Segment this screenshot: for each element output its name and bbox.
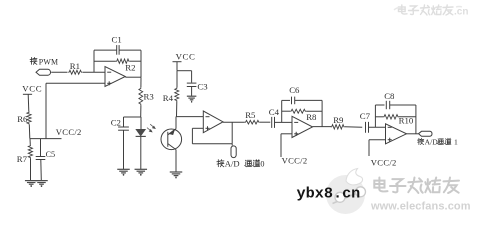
wire R9 to C7 (345, 126, 362, 128)
svg-text:C6: C6 (289, 85, 300, 95)
svg-text:VCC/2: VCC/2 (371, 157, 397, 167)
terminal A/D channel 0 (231, 146, 236, 158)
svg-text:C5: C5 (46, 150, 56, 159)
svg-text:R4: R4 (163, 93, 174, 103)
optocoupler phototransistor Q1 (161, 129, 182, 150)
wire C8 right (390, 104, 416, 106)
wire R6 to divider node (28, 125, 31, 139)
VCC left supply bar (23, 93, 32, 95)
wire C5 top lead (40, 139, 42, 157)
op-amp U2 (203, 111, 223, 133)
capacitor C7 (366, 122, 369, 133)
wire collector to node (175, 117, 177, 129)
label 接PWM (hanzi) (30, 57, 37, 64)
wire R5 to C4 (260, 121, 271, 123)
wire U3 non-inverting input (281, 133, 292, 135)
wire R2 left (94, 60, 116, 62)
resistor R6 (27, 112, 31, 125)
wire divider node to VCC/2 (30, 138, 62, 140)
resistor R10 (383, 115, 399, 119)
svg-text:C1: C1 (112, 35, 122, 45)
watermark ybx8 logo (326, 169, 366, 215)
wire R10 left (375, 116, 383, 118)
wire U3 feedback left up (281, 100, 283, 122)
svg-text:R5: R5 (245, 110, 256, 120)
svg-text:A/D: A/D (425, 137, 439, 146)
wire U3 output to R9 (313, 126, 332, 128)
wire C2 to ground (123, 130, 125, 169)
svg-text:R6: R6 (17, 114, 28, 124)
wire feedback down to U1 output (140, 50, 142, 77)
wire feedback bottom (192, 143, 232, 145)
wire node to op-amp U2 inverting input (177, 116, 204, 118)
capacitor C1 (117, 45, 119, 55)
wire R8 left (282, 110, 290, 112)
wire R2 right (130, 60, 141, 62)
wire C6 right (295, 99, 322, 101)
wire feedback left down (191, 128, 193, 144)
op-amp U1 (105, 67, 125, 87)
wire C6 left (282, 99, 290, 101)
resistor R1 (68, 70, 82, 74)
svg-text:R8: R8 (306, 112, 317, 122)
resistor R7 (28, 145, 32, 159)
svg-text:.cn: .cn (454, 7, 468, 18)
capacitor C2 (118, 127, 129, 130)
capacitor C6 (292, 97, 295, 105)
resistor R3 (139, 87, 143, 105)
wire C3 to ground (191, 87, 193, 97)
wire down to VCC/2 right (368, 140, 370, 156)
wire U2 non-inverting input (192, 127, 203, 129)
wire C1 left (94, 49, 117, 51)
wire down to VCC/2 (280, 134, 282, 157)
svg-text:ybx8.cn: ybx8.cn (297, 184, 361, 202)
wire U4 non-inverting input (369, 139, 386, 141)
ground under LED (135, 169, 148, 175)
capacitor C5 (36, 157, 46, 160)
svg-text:C3: C3 (197, 81, 208, 91)
wire node to C2 (124, 116, 141, 118)
wire output down to R3 (140, 77, 142, 87)
wire R1 to op-amp U1 inverting input (83, 71, 106, 73)
wire U4 feedback left up (374, 105, 376, 127)
wire branch to C3 (177, 70, 192, 72)
svg-text:R2: R2 (125, 62, 135, 72)
wire U1 output (125, 76, 141, 78)
wire R4 to collector node (176, 102, 178, 117)
wire R10 right (399, 116, 416, 118)
resistor R2 (116, 59, 130, 63)
svg-text:VCC: VCC (22, 83, 42, 93)
capacitor C3 (187, 83, 197, 86)
wire C5 to ground (40, 160, 43, 181)
wire to U1 non-inverting input (46, 82, 105, 84)
VCC middle supply bar (173, 61, 182, 63)
svg-text:0: 0 (260, 160, 264, 169)
wire R8 right (306, 110, 322, 112)
svg-text:R3: R3 (144, 91, 155, 101)
terminal PWM input (36, 69, 51, 75)
svg-text:VCC/2: VCC/2 (56, 127, 82, 137)
label 通道 1 (437, 138, 451, 144)
wire to A/D0 terminal (231, 144, 233, 146)
svg-text:VCC: VCC (176, 52, 196, 62)
wire C4 to U3 inverting input (275, 121, 293, 123)
wire feedback right down to U4 output (415, 105, 417, 134)
capacitor C8 (386, 101, 389, 109)
capacitor C4 (272, 117, 275, 128)
svg-text:www.elecfans.com: www.elecfans.com (370, 201, 471, 213)
wire emitter to ground (175, 150, 177, 172)
wire VCC to R6 (27, 94, 30, 111)
svg-text:1: 1 (454, 137, 458, 146)
svg-text:C2: C2 (111, 117, 121, 127)
op-amp U3 (292, 116, 313, 137)
label 通道 0 (245, 160, 260, 167)
ground under C2 (117, 169, 130, 175)
wire C2 top lead (123, 117, 125, 127)
svg-text:R10: R10 (399, 116, 414, 126)
wire C3 top lead (191, 71, 193, 83)
svg-text:A/D: A/D (225, 159, 240, 169)
svg-text:R1: R1 (70, 61, 80, 71)
wire U4 output to terminal (407, 133, 419, 135)
svg-text:C8: C8 (384, 91, 395, 101)
svg-text:C7: C7 (360, 111, 371, 121)
watermark top-right dianzifashaoyou.cn (399, 5, 454, 15)
wire C7 to U4 inverting input (369, 126, 386, 128)
svg-text:VCC/2: VCC/2 (282, 155, 308, 165)
svg-text:R7: R7 (17, 154, 28, 164)
svg-text:R9: R9 (333, 115, 344, 125)
svg-text:PWM: PWM (39, 57, 58, 66)
wire R7 to ground (30, 158, 32, 180)
wire U2 output (223, 121, 245, 123)
wire U1 non-inverting input to divider node (45, 83, 47, 138)
wire PWM to R1 (51, 71, 67, 73)
wire LED cathode to ground (140, 137, 142, 170)
terminal A/D channel 1 (419, 131, 433, 136)
wire C1 right (119, 49, 141, 51)
wire R3 to LED node (140, 105, 142, 117)
ground under R7 (25, 181, 38, 187)
resistor R8 (290, 109, 306, 113)
resistor R5 (245, 120, 260, 124)
wire U1 inverting node up to feedback (93, 50, 95, 72)
wire feedback right up to output (231, 122, 233, 144)
wire VCC to R4 (176, 71, 178, 88)
wire VCC down (176, 62, 178, 71)
optocoupler LED (136, 129, 146, 136)
wire feedback right down to U3 output (321, 100, 323, 126)
ground under C5 (35, 181, 48, 187)
ground under C3 (187, 96, 197, 102)
wire node to R7 (29, 139, 31, 145)
faint top-right smudges (394, 7, 462, 11)
resistor R9 (331, 125, 345, 129)
wire node to LED anode (140, 117, 142, 129)
svg-text:C4: C4 (269, 107, 280, 117)
label 接A/D通道0 hanzi 接 (217, 160, 224, 167)
watermark dianzifashaoyou (374, 178, 459, 194)
optocoupler light arrows (147, 124, 155, 132)
label 接A/D通道1 hanzi 接 (417, 138, 423, 144)
wire C8 left (375, 104, 384, 106)
op-amp U4 (386, 124, 407, 144)
ground under phototransistor (170, 172, 183, 178)
resistor R4 (175, 88, 179, 102)
